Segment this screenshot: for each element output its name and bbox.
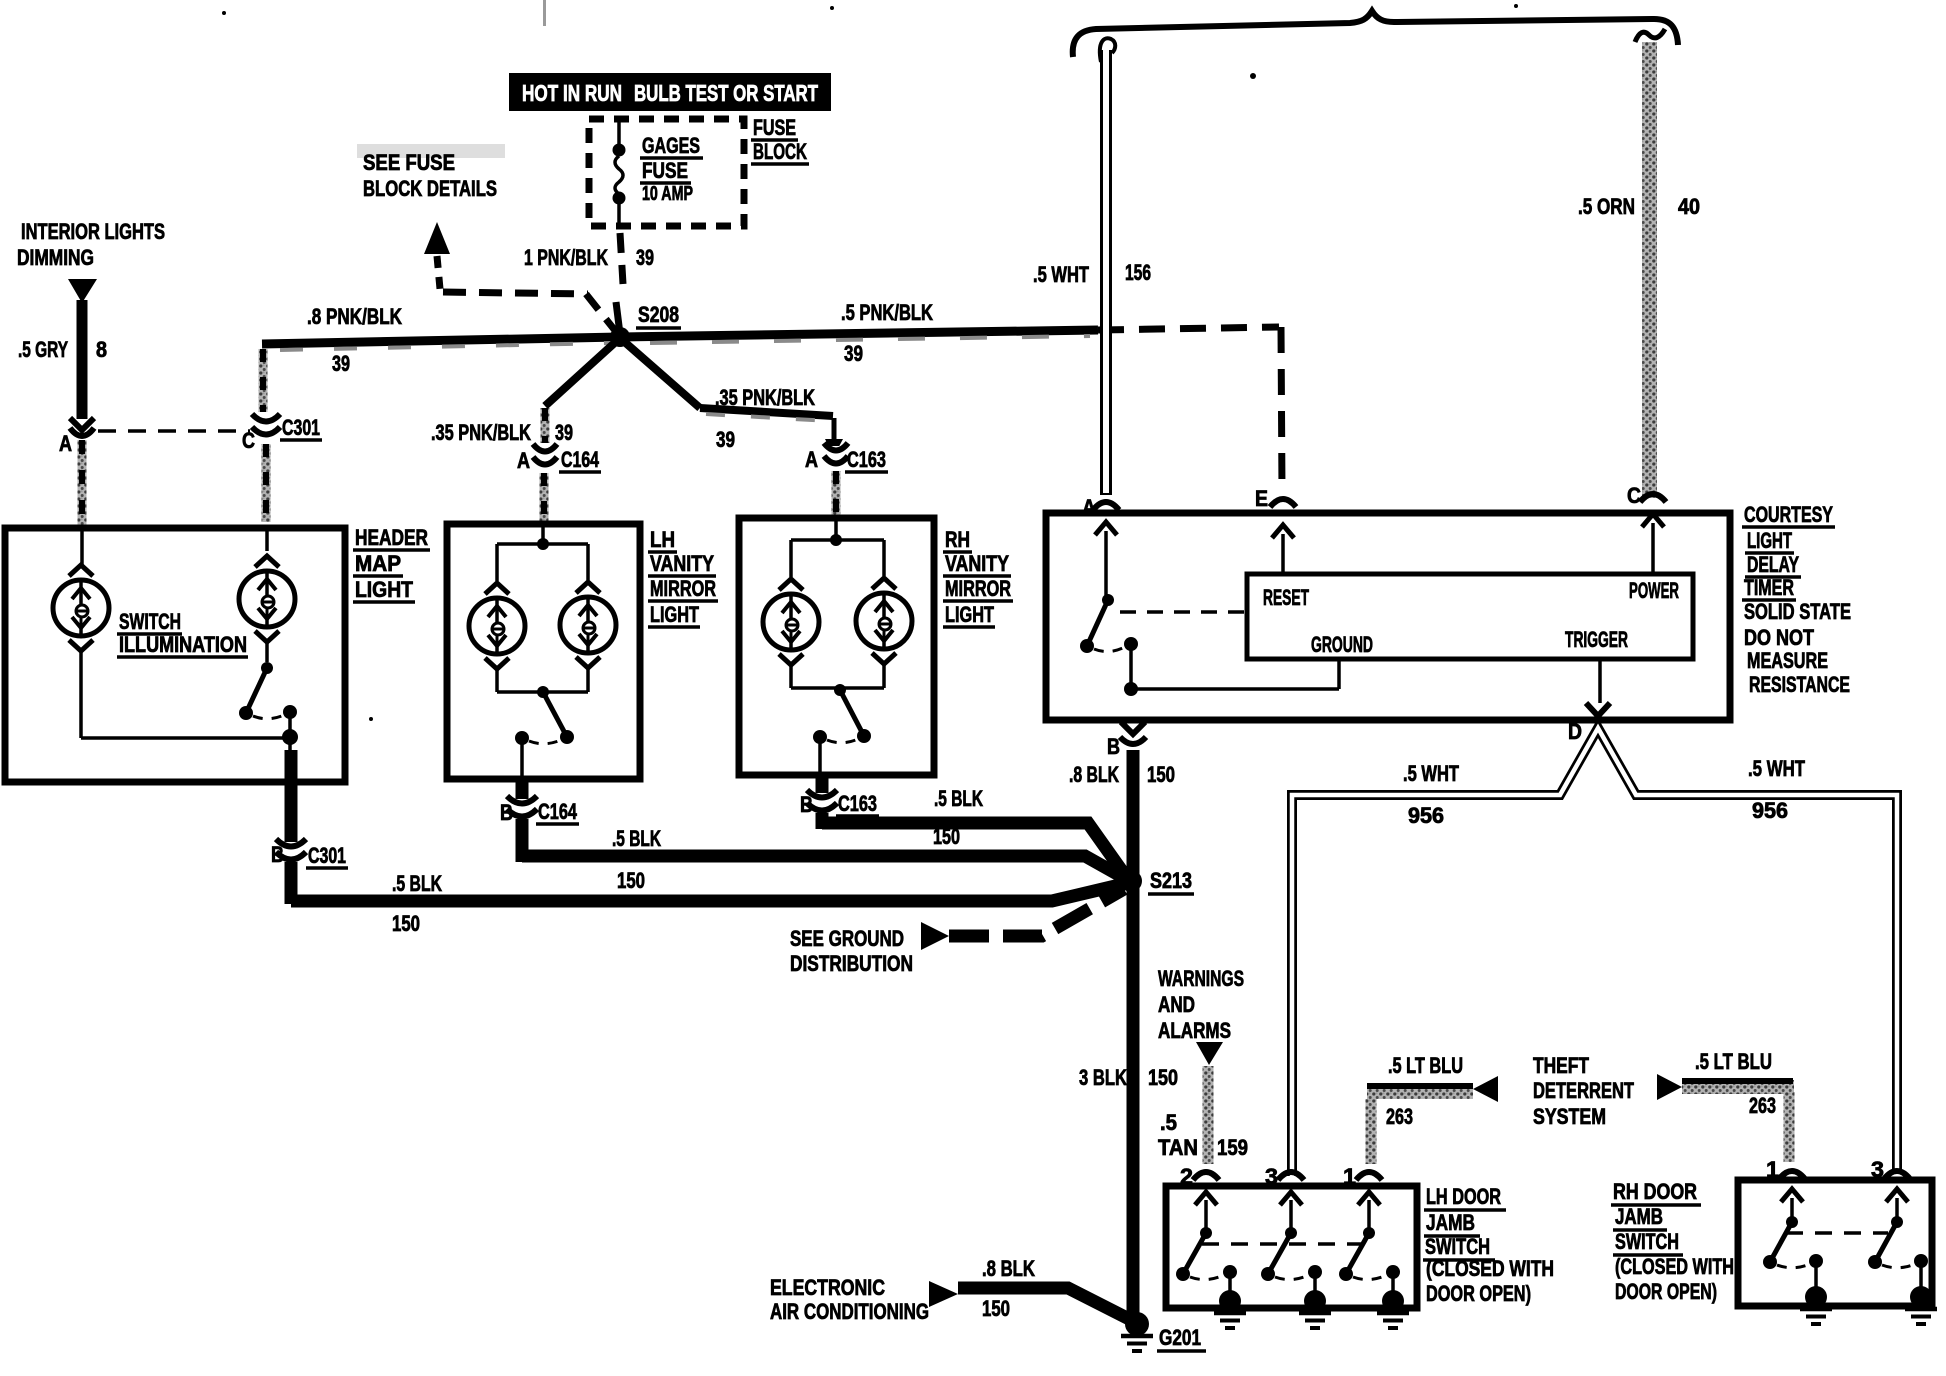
svg-text:LIGHT: LIGHT [1747, 528, 1792, 553]
svg-text:SWITCH: SWITCH [1615, 1229, 1679, 1254]
svg-text:SEE FUSE: SEE FUSE [363, 150, 455, 175]
svg-text:.8 BLK: .8 BLK [982, 1256, 1035, 1281]
svg-text:RH: RH [945, 527, 970, 552]
svg-text:.5 WHT: .5 WHT [1033, 262, 1089, 287]
svg-text:BLOCK DETAILS: BLOCK DETAILS [363, 176, 497, 201]
svg-text:MIRROR: MIRROR [650, 576, 716, 601]
svg-text:VANITY: VANITY [945, 551, 1009, 576]
svg-text:.5 BLK: .5 BLK [934, 786, 983, 811]
svg-text:.5 WHT: .5 WHT [1748, 756, 1805, 781]
svg-text:39: 39 [332, 351, 350, 376]
svg-text:2: 2 [1180, 1164, 1193, 1189]
svg-text:COURTESY: COURTESY [1744, 502, 1833, 527]
svg-text:DELAY: DELAY [1747, 552, 1799, 577]
svg-text:A: A [805, 447, 818, 472]
svg-text:LIGHT: LIGHT [650, 602, 699, 627]
svg-text:150: 150 [1147, 762, 1175, 787]
svg-text:39: 39 [636, 245, 654, 270]
svg-text:C: C [1627, 483, 1641, 508]
svg-text:LIGHT: LIGHT [355, 577, 413, 602]
svg-text:C301: C301 [308, 843, 346, 868]
svg-text:.5 BLK: .5 BLK [612, 826, 661, 851]
svg-text:AIR CONDITIONING: AIR CONDITIONING [770, 1299, 929, 1324]
svg-text:.35 PNK/BLK: .35 PNK/BLK [715, 385, 815, 410]
svg-text:MAP: MAP [355, 551, 401, 576]
svg-text:FUSE: FUSE [642, 158, 688, 183]
svg-text:150: 150 [617, 868, 645, 893]
svg-text:ELECTRONIC: ELECTRONIC [770, 1275, 885, 1300]
svg-text:3 BLK: 3 BLK [1079, 1065, 1127, 1090]
svg-text:263: 263 [1386, 1104, 1413, 1129]
svg-text:C163: C163 [838, 791, 877, 816]
svg-text:.35 PNK/BLK: .35 PNK/BLK [431, 420, 531, 445]
svg-text:HOT IN RUN: HOT IN RUN [522, 80, 622, 106]
svg-text:BLOCK: BLOCK [753, 139, 807, 164]
svg-text:40: 40 [1678, 194, 1700, 219]
svg-text:150: 150 [392, 911, 420, 936]
svg-text:HEADER: HEADER [355, 525, 428, 550]
svg-text:8: 8 [96, 337, 107, 362]
svg-text:SWITCH: SWITCH [119, 609, 181, 634]
svg-text:(CLOSED WITH: (CLOSED WITH [1615, 1254, 1734, 1279]
svg-text:ALARMS: ALARMS [1158, 1018, 1231, 1043]
svg-text:DO NOT: DO NOT [1744, 625, 1814, 650]
svg-text:C301: C301 [282, 415, 320, 440]
svg-text:39: 39 [844, 341, 863, 366]
svg-text:S213: S213 [1150, 868, 1192, 893]
svg-text:.5: .5 [1160, 1110, 1177, 1135]
svg-text:DOOR OPEN): DOOR OPEN) [1615, 1279, 1717, 1304]
svg-text:B: B [1107, 734, 1120, 759]
svg-text:C: C [242, 428, 255, 453]
svg-text:.5 WHT: .5 WHT [1403, 761, 1459, 786]
svg-text:RH DOOR: RH DOOR [1613, 1179, 1697, 1204]
svg-text:C164: C164 [538, 799, 578, 824]
svg-text:POWER: POWER [1629, 578, 1679, 603]
svg-text:GROUND: GROUND [1311, 632, 1373, 657]
svg-text:A: A [517, 448, 530, 473]
svg-text:(CLOSED WITH: (CLOSED WITH [1426, 1256, 1554, 1281]
svg-text:.5 LT BLU: .5 LT BLU [1388, 1053, 1463, 1078]
svg-text:TAN: TAN [1158, 1135, 1198, 1160]
svg-text:JAMB: JAMB [1615, 1204, 1663, 1229]
svg-text:DIMMING: DIMMING [17, 245, 94, 270]
svg-text:JAMB: JAMB [1426, 1210, 1475, 1235]
svg-text:.8 BLK: .8 BLK [1069, 762, 1119, 787]
svg-text:D: D [1568, 719, 1582, 744]
svg-text:DISTRIBUTION: DISTRIBUTION [790, 951, 913, 976]
svg-text:956: 956 [1752, 798, 1788, 823]
svg-text:B: B [800, 792, 813, 817]
svg-text:1: 1 [1343, 1164, 1356, 1189]
svg-text:SYSTEM: SYSTEM [1533, 1104, 1606, 1129]
svg-text:DOOR OPEN): DOOR OPEN) [1426, 1281, 1531, 1306]
svg-text:39: 39 [716, 427, 735, 452]
svg-text:VANITY: VANITY [650, 551, 714, 576]
svg-text:LIGHT: LIGHT [945, 602, 994, 627]
svg-text:DETERRENT: DETERRENT [1533, 1078, 1634, 1103]
svg-text:BULB TEST OR START: BULB TEST OR START [634, 80, 818, 106]
svg-text:.5 LT BLU: .5 LT BLU [1695, 1049, 1772, 1074]
svg-text:.8 PNK/BLK: .8 PNK/BLK [307, 304, 402, 329]
svg-text:.5 PNK/BLK: .5 PNK/BLK [841, 300, 933, 325]
svg-text:A: A [59, 431, 72, 456]
svg-text:ILLUMINATION: ILLUMINATION [119, 632, 247, 657]
svg-text:C164: C164 [561, 447, 600, 472]
svg-text:156: 156 [1125, 260, 1151, 285]
svg-text:3: 3 [1871, 1157, 1884, 1182]
svg-text:RESET: RESET [1263, 585, 1309, 610]
svg-text:956: 956 [1408, 803, 1444, 828]
svg-text:159: 159 [1217, 1135, 1248, 1160]
svg-text:MEASURE: MEASURE [1747, 648, 1828, 673]
svg-text:150: 150 [1148, 1065, 1178, 1090]
svg-text:39: 39 [555, 420, 573, 445]
svg-text:B: B [271, 842, 284, 867]
svg-text:.5 ORN: .5 ORN [1578, 194, 1635, 219]
svg-text:INTERIOR LIGHTS: INTERIOR LIGHTS [21, 219, 165, 244]
svg-text:S208: S208 [638, 302, 679, 327]
svg-text:AND: AND [1158, 992, 1195, 1017]
svg-text:3: 3 [1265, 1164, 1278, 1189]
svg-text:E: E [1255, 486, 1268, 511]
svg-text:.5 GRY: .5 GRY [18, 337, 68, 362]
svg-text:SEE GROUND: SEE GROUND [790, 926, 904, 951]
svg-text:150: 150 [933, 824, 960, 849]
svg-text:B: B [500, 800, 513, 825]
svg-text:263: 263 [1749, 1093, 1776, 1118]
svg-text:1 PNK/BLK: 1 PNK/BLK [524, 245, 608, 270]
svg-text:MIRROR: MIRROR [945, 576, 1011, 601]
svg-text:THEFT: THEFT [1533, 1053, 1589, 1078]
svg-text:LH DOOR: LH DOOR [1426, 1184, 1501, 1209]
svg-text:WARNINGS: WARNINGS [1158, 966, 1244, 991]
svg-text:G201: G201 [1159, 1325, 1201, 1350]
svg-text:GAGES: GAGES [642, 133, 700, 158]
svg-text:C163: C163 [847, 447, 886, 472]
svg-text:1: 1 [1766, 1157, 1779, 1182]
svg-text:150: 150 [982, 1296, 1010, 1321]
svg-text:.5 BLK: .5 BLK [392, 871, 442, 896]
svg-text:10 AMP: 10 AMP [642, 183, 693, 205]
svg-text:FUSE: FUSE [753, 115, 796, 140]
svg-text:RESISTANCE: RESISTANCE [1749, 672, 1850, 697]
svg-text:TRIGGER: TRIGGER [1565, 627, 1628, 652]
svg-text:TIMER: TIMER [1744, 575, 1794, 600]
svg-text:LH: LH [650, 527, 675, 552]
svg-text:A: A [1082, 495, 1096, 520]
svg-text:SOLID STATE: SOLID STATE [1744, 599, 1851, 624]
